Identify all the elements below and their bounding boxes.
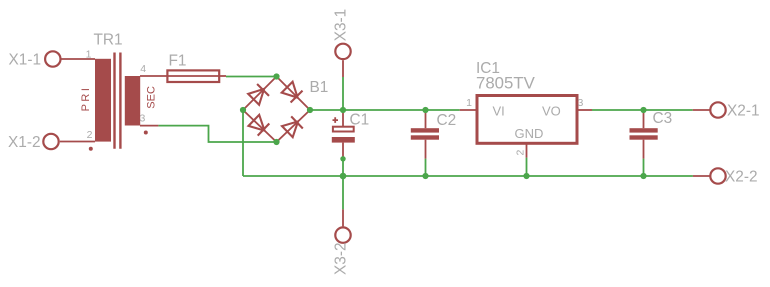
svg-text:X1-1: X1-1: [9, 52, 42, 69]
svg-text:GND: GND: [515, 126, 544, 141]
svg-text:1: 1: [86, 49, 92, 61]
svg-text:2: 2: [87, 129, 93, 141]
svg-text:VO: VO: [542, 103, 561, 118]
svg-text:TR1: TR1: [94, 32, 123, 49]
svg-text:X2-1: X2-1: [727, 103, 760, 120]
svg-text:3: 3: [140, 112, 146, 124]
svg-text:3: 3: [578, 97, 584, 109]
svg-text:X1-2: X1-2: [8, 134, 41, 151]
svg-text:C1: C1: [350, 112, 370, 129]
svg-text:X3-1: X3-1: [333, 9, 350, 42]
svg-text:7805TV: 7805TV: [476, 74, 536, 93]
svg-text:SEC: SEC: [145, 86, 157, 109]
svg-text:VI: VI: [493, 103, 505, 118]
svg-text:4: 4: [140, 63, 146, 75]
svg-text:X3-2: X3-2: [333, 242, 350, 275]
svg-text:C2: C2: [437, 112, 457, 129]
svg-text:PRI: PRI: [80, 86, 92, 112]
svg-text:C3: C3: [653, 110, 673, 127]
svg-text:X2-2: X2-2: [725, 169, 758, 186]
svg-text:F1: F1: [169, 53, 187, 70]
svg-text:B1: B1: [310, 79, 329, 96]
svg-text:2: 2: [515, 150, 527, 156]
svg-text:1: 1: [466, 97, 472, 109]
